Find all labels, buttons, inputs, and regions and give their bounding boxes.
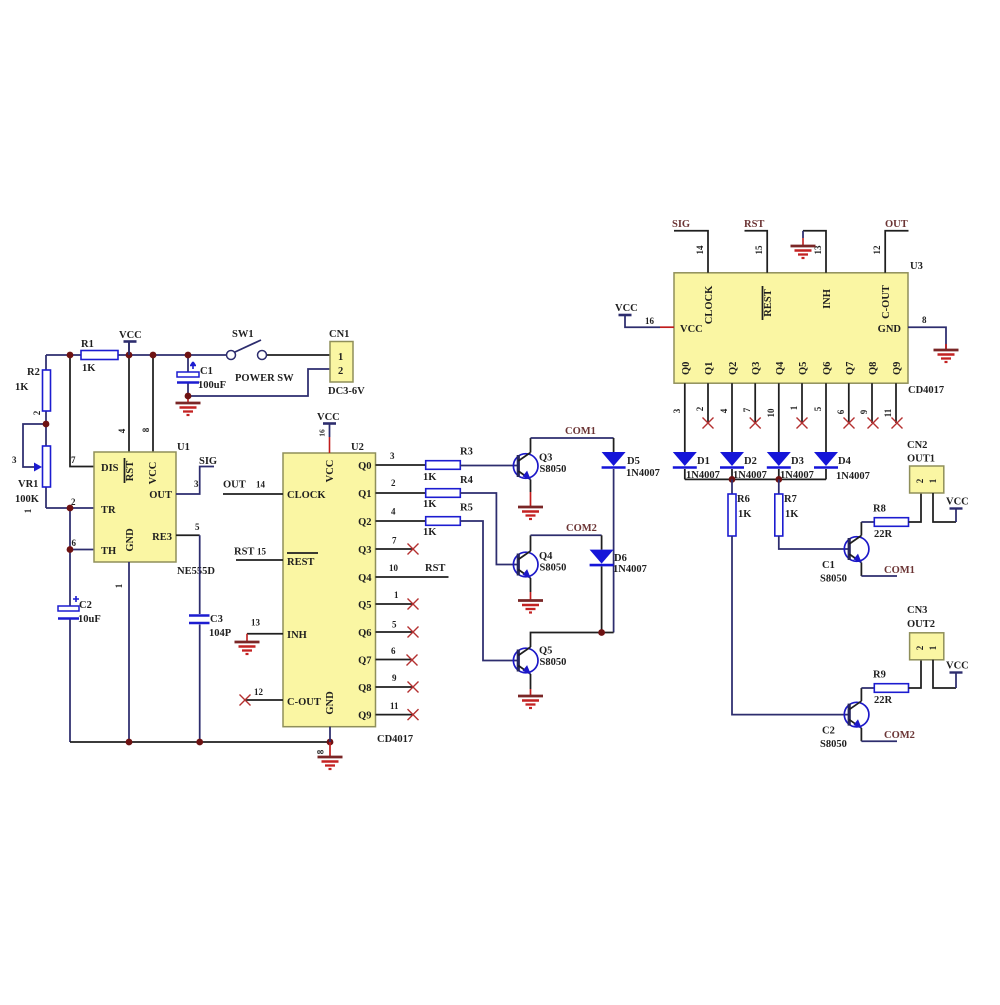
- wire R7 to C1 base: [779, 536, 849, 549]
- svg-text:SIG: SIG: [672, 219, 690, 230]
- svg-text:14: 14: [695, 245, 705, 255]
- diode D5 1N4007: [602, 452, 626, 468]
- svg-text:U1: U1: [177, 442, 190, 453]
- wire bottom ground rail: [70, 741, 330, 743]
- wire Q5 emitter to ground: [530, 674, 532, 689]
- svg-text:C2: C2: [822, 726, 835, 737]
- svg-text:VR1: VR1: [18, 479, 38, 490]
- svg-text:2: 2: [71, 497, 76, 507]
- svg-text:1K: 1K: [423, 499, 437, 510]
- wire U1 OUT to SIG stub: [176, 467, 214, 495]
- wire GND pin8 of U3: [908, 327, 946, 350]
- svg-text:Q0: Q0: [358, 461, 371, 472]
- svg-text:R1: R1: [81, 339, 94, 350]
- wire U1 GND pin1: [128, 562, 130, 742]
- wire C1 stem: [187, 355, 189, 396]
- resistor R4: [426, 489, 461, 498]
- wire C-OUT pin12: [245, 699, 283, 701]
- svg-text:22R: 22R: [874, 695, 893, 706]
- svg-text:Q4: Q4: [539, 551, 553, 562]
- wire COM2 down to D6: [601, 535, 603, 549]
- svg-text:8: 8: [316, 749, 326, 754]
- svg-text:Q9: Q9: [892, 362, 903, 375]
- svg-text:TR: TR: [101, 505, 116, 516]
- wire C2 emitter to COM2: [860, 728, 862, 741]
- diode D4 1N4007: [814, 452, 838, 468]
- ground above U3 INH: [802, 231, 804, 238]
- svg-text:1K: 1K: [423, 527, 437, 538]
- transistor C2 S8050: [844, 701, 869, 729]
- transistor C1 S8050: [844, 536, 869, 564]
- svg-text:CN1: CN1: [329, 329, 349, 340]
- wire SIG to CLOCK pin14: [674, 231, 708, 273]
- wire U3 Q4 pin10 to D3: [778, 383, 780, 452]
- svg-text:R5: R5: [460, 503, 473, 514]
- IC U3 CD4017: [674, 273, 908, 383]
- svg-text:RST: RST: [425, 563, 445, 574]
- svg-text:6: 6: [391, 646, 396, 656]
- svg-text:2: 2: [391, 478, 396, 488]
- svg-text:1K: 1K: [738, 509, 752, 520]
- wire TH pin6: [70, 549, 94, 551]
- svg-text:Q1: Q1: [358, 489, 371, 500]
- wire D6 cathode down: [601, 567, 603, 633]
- svg-text:22R: 22R: [874, 529, 893, 540]
- svg-text:2: 2: [915, 478, 925, 483]
- VCC symbol right of CN3: [950, 671, 963, 673]
- svg-text:COM2: COM2: [566, 523, 597, 534]
- svg-text:S8050: S8050: [540, 464, 567, 475]
- junction TH: [67, 546, 74, 553]
- wire U1 RE3 to C3: [176, 534, 200, 536]
- svg-text:R3: R3: [460, 447, 473, 458]
- svg-text:S8050: S8050: [820, 739, 847, 750]
- svg-text:1: 1: [114, 583, 124, 588]
- svg-text:4: 4: [117, 428, 127, 433]
- svg-text:C1: C1: [200, 366, 213, 377]
- svg-text:5: 5: [392, 620, 397, 630]
- wire R5 to Q5 base: [460, 521, 518, 661]
- wire OUT to CLOCK pin14: [223, 493, 283, 495]
- svg-text:S8050: S8050: [540, 563, 567, 574]
- svg-text:100uF: 100uF: [198, 380, 226, 391]
- capacitor C2: [73, 596, 79, 602]
- svg-text:CLOCK: CLOCK: [287, 490, 326, 501]
- wire COM1: [531, 437, 614, 439]
- svg-text:C-OUT: C-OUT: [881, 285, 892, 319]
- wire R6 to C2 base: [732, 536, 849, 715]
- wire U3 Q2 pin4 to D2: [731, 383, 733, 452]
- wire CN1 pin2 return: [188, 369, 330, 396]
- svg-text:Q5: Q5: [798, 362, 809, 375]
- svg-text:8: 8: [922, 315, 927, 325]
- capacitor C1: [190, 362, 196, 369]
- svg-text:U2: U2: [351, 442, 364, 453]
- svg-text:Q8: Q8: [358, 683, 371, 694]
- svg-text:CD4017: CD4017: [908, 385, 944, 396]
- wire U1 pin8 VCC: [152, 355, 154, 452]
- no-connect X at C-OUT: [240, 695, 251, 706]
- wire Q2 to R5: [376, 520, 426, 522]
- svg-text:SW1: SW1: [232, 329, 254, 340]
- ground below C1: [176, 403, 201, 415]
- svg-text:Q1: Q1: [704, 362, 715, 375]
- wire U3 Q5 pin1 stub: [801, 383, 803, 423]
- wire Q1 to R4: [376, 492, 426, 494]
- wire C1 emitter to COM1: [860, 563, 862, 577]
- wire Q5 pin1 stub: [376, 603, 414, 605]
- svg-text:Q0: Q0: [681, 362, 692, 375]
- capacitor C3: [189, 614, 210, 617]
- svg-text:Q5: Q5: [358, 600, 371, 611]
- wire R4 to Q4 base: [460, 493, 518, 565]
- svg-text:R4: R4: [460, 475, 474, 486]
- VCC symbol right of CN2: [950, 507, 963, 509]
- svg-text:POWER SW: POWER SW: [235, 373, 294, 384]
- svg-text:D2: D2: [744, 456, 757, 467]
- wire Q7 pin6 stub: [376, 659, 413, 661]
- svg-text:Q2: Q2: [728, 362, 739, 375]
- svg-text:15: 15: [754, 245, 764, 255]
- wire VCC pin16 red: [660, 326, 674, 328]
- wire U3 Q6 pin5 to D4: [825, 383, 827, 452]
- svg-text:R9: R9: [873, 670, 886, 681]
- junction rail at R7: [775, 476, 782, 483]
- junction VR1 wiper tap: [43, 421, 50, 428]
- diode D1 1N4007: [673, 452, 697, 468]
- wire R9 to CN3 pin2: [909, 660, 922, 688]
- wire Q0 to R3: [376, 464, 426, 466]
- wire R8 to CN2 pin2: [909, 493, 922, 522]
- wire C1 collector to R8: [860, 522, 862, 536]
- wire DIS vertical pin7: [70, 355, 94, 467]
- svg-text:D3: D3: [791, 456, 804, 467]
- wire U3 Q0 pin3 to D1: [684, 383, 686, 452]
- wire Q6 pin5 stub: [376, 631, 414, 633]
- svg-text:Q7: Q7: [845, 362, 856, 375]
- junction rail at R6: [729, 476, 736, 483]
- svg-text:Q6: Q6: [822, 362, 833, 375]
- svg-text:104P: 104P: [209, 628, 232, 639]
- svg-text:100K: 100K: [15, 494, 40, 505]
- wire TR to TH to C2 vertical: [69, 508, 71, 606]
- svg-text:16: 16: [645, 316, 655, 326]
- wire U2 GND pin8: [329, 727, 331, 742]
- svg-text:R6: R6: [737, 494, 750, 505]
- resistor R1: [81, 351, 118, 360]
- IC U2 CD4017: [283, 453, 376, 727]
- wire C2 collector to R9: [860, 688, 862, 701]
- svg-text:DC3-6V: DC3-6V: [328, 386, 365, 397]
- svg-text:VCC: VCC: [317, 412, 340, 423]
- svg-text:1N4007: 1N4007: [613, 564, 647, 575]
- svg-text:REST: REST: [287, 557, 314, 568]
- svg-text:VCC: VCC: [119, 330, 142, 341]
- svg-text:REST: REST: [763, 289, 774, 316]
- svg-text:VCC: VCC: [680, 324, 703, 335]
- svg-text:CN3: CN3: [907, 605, 927, 616]
- wire Q8 pin9 stub: [376, 686, 414, 688]
- svg-text:INH: INH: [287, 630, 307, 641]
- junction rail at U2 gnd: [327, 739, 334, 746]
- resistor R3: [426, 461, 461, 470]
- svg-text:Q6: Q6: [358, 628, 371, 639]
- svg-text:1N4007: 1N4007: [626, 468, 660, 479]
- junction top rail at pin4: [126, 352, 133, 359]
- wire top VCC rail: [46, 354, 231, 356]
- svg-text:D1: D1: [697, 456, 710, 467]
- resistor R8: [874, 518, 908, 527]
- wire switch to CN1 pin1: [266, 354, 330, 356]
- svg-text:2: 2: [915, 645, 925, 650]
- svg-text:2: 2: [32, 410, 42, 415]
- wire Q5 collector rail: [531, 633, 614, 648]
- svg-text:GND: GND: [878, 324, 902, 335]
- svg-text:DIS: DIS: [101, 463, 119, 474]
- wire C1 ground stub: [187, 396, 189, 403]
- svg-text:C2: C2: [79, 600, 92, 611]
- wire OUT to C-OUT pin12: [885, 231, 908, 273]
- svg-text:Q5: Q5: [539, 646, 552, 657]
- connector CN3: [910, 633, 944, 660]
- svg-text:COM1: COM1: [884, 565, 915, 576]
- svg-text:Q3: Q3: [358, 545, 371, 556]
- wire VR1 bottom to TR: [45, 487, 47, 508]
- junction top rail at C1: [185, 352, 192, 359]
- svg-text:1K: 1K: [785, 509, 799, 520]
- svg-text:R7: R7: [784, 494, 797, 505]
- svg-text:12: 12: [872, 245, 882, 255]
- wire U3 Q3 pin7 stub: [754, 383, 756, 423]
- resistor R5: [426, 517, 461, 526]
- wire R2 stem top: [45, 355, 47, 370]
- svg-text:4: 4: [719, 408, 729, 413]
- svg-text:OUT: OUT: [149, 490, 172, 501]
- wire RST to REST pin15: [745, 231, 768, 273]
- svg-text:OUT: OUT: [885, 219, 908, 230]
- wire Q4 pin10 RST stub: [376, 576, 449, 578]
- resistor R6: [731, 479, 733, 494]
- wire CN3 pin1 to VCC: [933, 660, 956, 688]
- resistor R2: [43, 370, 51, 411]
- wire Q4 collector to COM2: [530, 535, 532, 551]
- wire Q3 pin7 stub: [376, 548, 414, 550]
- wire COM1 down to D5: [613, 438, 615, 452]
- svg-text:OUT2: OUT2: [907, 619, 935, 630]
- svg-text:C1: C1: [822, 560, 835, 571]
- wire RST to REST pin15: [236, 559, 283, 561]
- resistor R7: [778, 479, 780, 494]
- svg-text:1: 1: [23, 508, 33, 513]
- svg-text:7: 7: [742, 407, 752, 412]
- connector CN1: [330, 342, 353, 383]
- svg-text:3: 3: [194, 479, 199, 489]
- junction C1 bottom: [185, 393, 192, 400]
- svg-text:U3: U3: [910, 261, 923, 272]
- wire R3 to Q3 base: [460, 465, 518, 467]
- svg-text:12: 12: [254, 687, 264, 697]
- svg-text:Q3: Q3: [751, 362, 762, 375]
- svg-text:1K: 1K: [82, 363, 96, 374]
- wire TR pin2: [46, 507, 94, 509]
- svg-text:Q4: Q4: [358, 573, 372, 584]
- svg-text:1: 1: [789, 405, 799, 410]
- svg-text:10: 10: [766, 408, 776, 418]
- wire U3 Q1 pin2 stub: [707, 383, 709, 423]
- svg-text:OUT1: OUT1: [907, 454, 935, 465]
- junction TR: [67, 505, 74, 512]
- svg-text:D4: D4: [838, 456, 852, 467]
- svg-text:Q3: Q3: [539, 453, 552, 464]
- wire INH pin13: [247, 633, 283, 635]
- wire D5 cathode down: [613, 469, 615, 633]
- svg-text:TH: TH: [101, 546, 116, 557]
- svg-text:COM1: COM1: [565, 426, 596, 437]
- svg-text:CD4017: CD4017: [377, 734, 413, 745]
- svg-text:CLOCK: CLOCK: [704, 285, 715, 324]
- potentiometer VR1: [43, 446, 51, 487]
- wire diode cathode rail: [685, 469, 826, 479]
- wire INH pin13 to ground: [803, 231, 826, 273]
- wire VR1 wiper: [23, 424, 46, 467]
- svg-text:9: 9: [392, 673, 397, 683]
- svg-text:NE555D: NE555D: [177, 566, 215, 577]
- transistor Q5 S8050: [513, 647, 538, 675]
- svg-text:10uF: 10uF: [78, 614, 101, 625]
- svg-text:1: 1: [928, 645, 938, 650]
- svg-text:5: 5: [195, 522, 200, 532]
- svg-text:2: 2: [695, 406, 705, 411]
- svg-text:3: 3: [672, 408, 682, 413]
- resistor R9: [874, 684, 908, 693]
- svg-text:VCC: VCC: [615, 303, 638, 314]
- svg-text:2: 2: [338, 366, 343, 377]
- wire Q3 collector to COM1: [530, 438, 532, 453]
- svg-text:SIG: SIG: [199, 456, 217, 467]
- switch SW1: [227, 351, 236, 360]
- svg-text:1K: 1K: [423, 472, 437, 483]
- svg-text:S8050: S8050: [540, 657, 567, 668]
- svg-text:RE3: RE3: [152, 532, 172, 543]
- svg-text:Q4: Q4: [775, 361, 786, 375]
- svg-text:C-OUT: C-OUT: [287, 697, 321, 708]
- svg-text:D5: D5: [627, 456, 640, 467]
- op-amp U1 NE555D: [94, 452, 176, 562]
- svg-text:GND: GND: [325, 691, 336, 715]
- svg-text:7: 7: [392, 536, 397, 546]
- svg-text:3: 3: [12, 455, 17, 465]
- svg-text:VCC: VCC: [325, 460, 336, 483]
- wire CN2 pin1 to VCC: [933, 493, 956, 522]
- svg-text:5: 5: [813, 406, 823, 411]
- junction top rail at DIS: [67, 352, 74, 359]
- svg-text:11: 11: [390, 701, 399, 711]
- svg-text:15: 15: [257, 547, 267, 557]
- junction top rail at pin8: [150, 352, 157, 359]
- svg-text:VCC: VCC: [946, 497, 969, 508]
- svg-text:10: 10: [389, 563, 399, 573]
- svg-text:8: 8: [141, 427, 151, 432]
- svg-text:R2: R2: [27, 367, 40, 378]
- svg-text:1: 1: [394, 590, 399, 600]
- svg-text:COM2: COM2: [884, 730, 915, 741]
- wire U3 Q9 pin11 stub: [895, 383, 897, 423]
- svg-text:4: 4: [391, 507, 396, 517]
- wire Q9 pin11 stub: [376, 714, 414, 716]
- junction rail at U1 gnd: [126, 739, 133, 746]
- svg-text:RST: RST: [234, 547, 254, 558]
- svg-text:1K: 1K: [15, 382, 29, 393]
- VCC symbol top left: [124, 341, 137, 343]
- svg-text:13: 13: [251, 618, 261, 628]
- svg-text:9: 9: [859, 409, 869, 414]
- transistor Q3 S8050: [513, 453, 538, 481]
- junction rail at C3: [196, 739, 203, 746]
- svg-text:OUT: OUT: [223, 480, 246, 491]
- wire C2 bottom to rail: [69, 619, 71, 743]
- wire COM2: [531, 534, 602, 536]
- svg-text:Q7: Q7: [358, 656, 371, 667]
- svg-text:Q2: Q2: [358, 517, 371, 528]
- svg-text:CN2: CN2: [907, 440, 927, 451]
- wire Q4 emitter to ground: [530, 578, 532, 592]
- wire U1 pin4 RST: [128, 342, 130, 452]
- transistor Q4 S8050: [513, 551, 538, 579]
- diode D3 1N4007: [767, 452, 791, 468]
- svg-text:6: 6: [836, 409, 846, 414]
- wire U3 Q8 pin9 stub: [871, 383, 873, 423]
- wire Q3 emitter to ground: [530, 480, 532, 493]
- svg-text:16: 16: [318, 429, 327, 437]
- svg-text:INH: INH: [822, 289, 833, 309]
- svg-text:S8050: S8050: [820, 574, 847, 585]
- ground right of U3: [945, 344, 947, 350]
- svg-text:1: 1: [928, 478, 938, 483]
- svg-text:RST: RST: [744, 219, 764, 230]
- svg-text:1: 1: [338, 352, 343, 363]
- svg-text:11: 11: [883, 408, 893, 417]
- junction D6 on Q5 collector: [598, 629, 605, 636]
- svg-text:D6: D6: [614, 553, 627, 564]
- svg-text:R8: R8: [873, 504, 886, 515]
- svg-text:6: 6: [72, 538, 77, 548]
- svg-text:VCC: VCC: [946, 661, 969, 672]
- svg-text:3: 3: [390, 451, 395, 461]
- svg-text:Q9: Q9: [358, 711, 371, 722]
- ground below U2: [318, 757, 343, 769]
- svg-text:Q8: Q8: [868, 362, 879, 375]
- svg-text:1N4007: 1N4007: [836, 471, 870, 482]
- diode D6 1N4007: [590, 550, 614, 566]
- svg-text:14: 14: [256, 480, 266, 490]
- svg-text:GND: GND: [125, 528, 136, 552]
- svg-text:VCC: VCC: [148, 462, 159, 485]
- wire R2 to VR1: [45, 411, 47, 446]
- connector CN2: [910, 466, 944, 493]
- diode D2 1N4007: [720, 452, 744, 468]
- wire U3 Q7 pin6 stub: [848, 383, 850, 423]
- ground at INH: [246, 634, 248, 642]
- svg-text:7: 7: [71, 455, 76, 465]
- svg-text:RST: RST: [125, 461, 136, 481]
- svg-text:C3: C3: [210, 614, 223, 625]
